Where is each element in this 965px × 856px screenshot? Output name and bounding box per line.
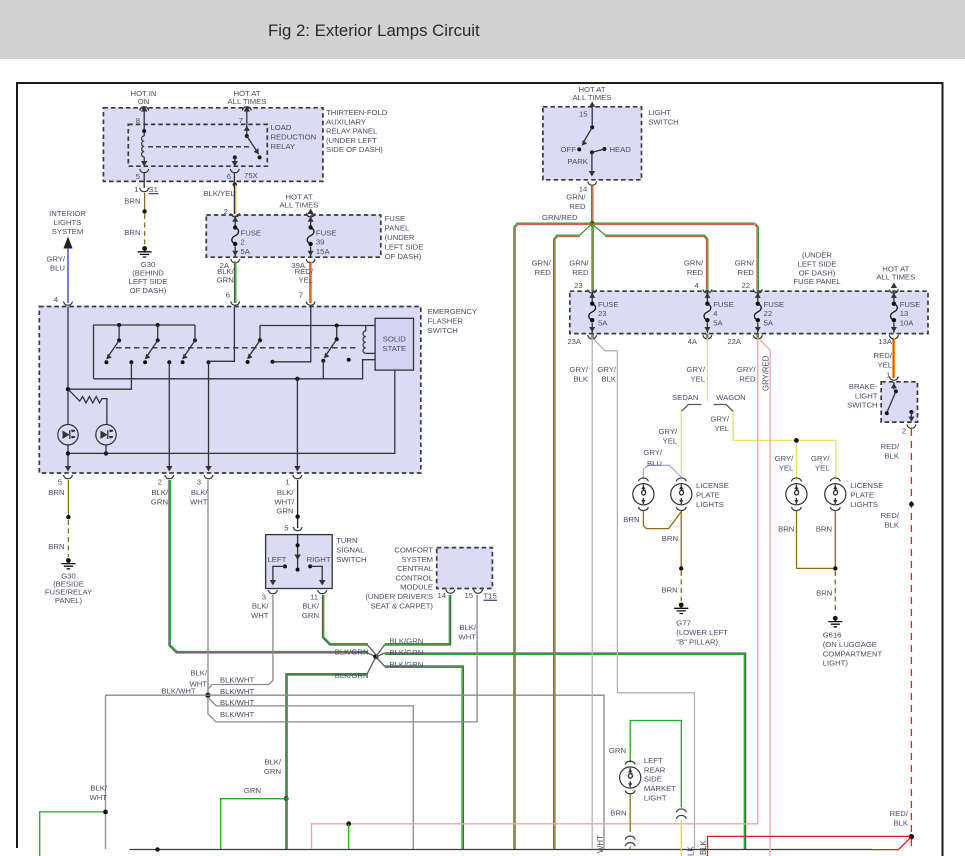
GRY/BLU label [643, 448, 663, 468]
INTERIOR LIGHTS SYSTEM label [49, 209, 86, 236]
turn signal pin 3 cup [268, 590, 277, 594]
svg-text:COMFORT: COMFORT [394, 546, 433, 555]
GRY/YEL label (wagon) [710, 415, 730, 433]
svg-text:RED: RED [687, 268, 704, 277]
svg-text:WHT: WHT [190, 497, 208, 506]
relay panel box (thirteen-fold auxiliary relay panel) [103, 108, 323, 182]
relay panel label [326, 108, 388, 154]
wire BLK/GRN fuse 2A to flasher pin 6 [235, 262, 236, 304]
svg-text:5: 5 [284, 524, 288, 533]
svg-text:RELAY PANEL: RELAY PANEL [326, 127, 378, 136]
solid state label [382, 335, 406, 354]
svg-text:ALL TIMES: ALL TIMES [280, 201, 319, 210]
svg-text:FUSE: FUSE [598, 300, 619, 309]
svg-text:G77: G77 [676, 619, 691, 628]
svg-text:LIGHTS: LIGHTS [696, 500, 724, 509]
svg-text:LIGHTS: LIGHTS [850, 500, 878, 509]
wire BLK/WHT flasher pin3 to junction 2 [207, 480, 209, 693]
svg-text:TURN: TURN [336, 536, 357, 545]
wire GRY/BLK fuse 23A straight down [591, 338, 593, 849]
wire GRY/RED fuse 22A second branch [759, 339, 770, 856]
svg-text:BLK/WHT: BLK/WHT [220, 687, 254, 696]
sedan/wagon split bracket [681, 405, 733, 412]
fuse F22 5A [754, 292, 761, 333]
svg-text:5A: 5A [764, 319, 774, 328]
svg-text:BLK/: BLK/ [217, 267, 235, 276]
ground G77 label [676, 619, 728, 647]
svg-text:BLK/: BLK/ [190, 669, 208, 678]
comfort pin 15 cup [474, 590, 483, 594]
wire GRY/YEL wagon branch [733, 411, 836, 480]
svg-text:RED: RED [738, 268, 755, 277]
svg-text:5A: 5A [713, 319, 723, 328]
svg-text:BRAKE-: BRAKE- [849, 382, 878, 391]
wire BRN S1 to ground G30 [142, 193, 146, 245]
svg-text:BRN: BRN [816, 525, 832, 534]
svg-text:RED/: RED/ [874, 351, 893, 360]
comfort system module box [437, 548, 493, 589]
light switch internals [577, 107, 606, 177]
BLK/WHT label (left vertical) [89, 784, 107, 802]
wire BLK/WHT junction 2 southeast then south at 413 [208, 698, 413, 850]
GRY/RED label [737, 365, 757, 383]
svg-text:LIGHTS: LIGHTS [54, 218, 82, 227]
fuse 2 value label [241, 228, 262, 256]
svg-text:(ON LUGGAGE: (ON LUGGAGE [823, 640, 877, 649]
terminal T15 label [484, 592, 498, 601]
svg-text:RED/: RED/ [881, 442, 900, 451]
svg-text:GRN: GRN [264, 767, 281, 776]
svg-text:BRN: BRN [610, 809, 626, 818]
svg-text:OF DASH): OF DASH) [385, 252, 422, 261]
svg-text:WHT: WHT [189, 680, 207, 689]
svg-text:BLK: BLK [601, 374, 616, 383]
svg-text:5: 5 [136, 172, 140, 181]
wire hot feed light switch [589, 102, 595, 108]
solid state box U1 [375, 318, 413, 370]
svg-text:OF DASH): OF DASH) [130, 286, 167, 295]
svg-text:BLK: BLK [893, 818, 908, 827]
svg-text:4A: 4A [688, 337, 698, 346]
svg-text:GRN/: GRN/ [735, 259, 755, 268]
svg-text:RED: RED [569, 202, 586, 211]
BLK/WHT label (pin 3) [251, 602, 269, 620]
GRY/YEL label [686, 365, 706, 383]
emergency flasher switch box [39, 307, 421, 474]
svg-text:WHT: WHT [596, 835, 605, 853]
svg-text:T15: T15 [484, 592, 497, 601]
wire BLK/GRN junction X to comfort pin 14 [376, 595, 450, 656]
svg-text:BLK/: BLK/ [151, 488, 169, 497]
svg-text:BRN: BRN [124, 228, 140, 237]
svg-text:(UNDER: (UNDER [385, 233, 415, 242]
NC contact lead 3 (to pin 3 and relay pin 6 wire) [205, 307, 234, 472]
svg-text:6: 6 [226, 291, 230, 300]
svg-text:LICENSE: LICENSE [696, 481, 729, 490]
svg-text:LIGHT): LIGHT) [823, 659, 849, 668]
svg-text:3: 3 [262, 593, 266, 602]
svg-text:BRN: BRN [48, 542, 64, 551]
wire BRN flasher pin5 to ground G30 [66, 480, 70, 557]
wire YEL below connector [680, 820, 682, 856]
wire BLK/WHT junction 2 south then east up to comfort pin 15 [208, 595, 477, 722]
turn signal pin 11 cup [318, 590, 327, 594]
svg-text:COMPARTMENT: COMPARTMENT [823, 649, 883, 658]
svg-text:GRN/RED: GRN/RED [542, 213, 578, 222]
fuse F4 5A [704, 292, 711, 333]
svg-text:SYSTEM: SYSTEM [52, 227, 84, 236]
svg-text:THIRTEEN-FOLD: THIRTEEN-FOLD [326, 108, 388, 117]
wire GRY/BLU flasher pin4 up [67, 248, 69, 303]
svg-text:GRY/: GRY/ [597, 365, 617, 374]
ground G616 [828, 616, 842, 627]
wire BRN below marker light [629, 794, 631, 832]
svg-text:LEFT SIDE: LEFT SIDE [798, 259, 837, 268]
svg-text:WHT/: WHT/ [274, 497, 295, 506]
svg-text:5A: 5A [241, 247, 251, 256]
connector on BRN marker wire [625, 836, 635, 846]
svg-text:6: 6 [227, 172, 231, 181]
wire GRN branch from marker feed [221, 796, 289, 849]
svg-text:2: 2 [902, 427, 906, 436]
svg-text:S1: S1 [149, 185, 158, 194]
wire hot feed fuse 13 [891, 283, 897, 289]
svg-text:23: 23 [574, 281, 583, 290]
svg-text:BLK/GRN: BLK/GRN [390, 648, 424, 657]
flasher left bus wire (pin4 down through lamps to pin5) [67, 307, 69, 469]
BLK/GRN label [217, 267, 235, 285]
svg-text:BLK/GRN: BLK/GRN [335, 671, 369, 680]
svg-text:39: 39 [316, 238, 325, 247]
fuse 22 value label [764, 300, 785, 328]
pin 6 cup 75X [230, 169, 239, 173]
svg-text:(UNDER LEFT: (UNDER LEFT [326, 136, 377, 145]
svg-text:ALL TIMES: ALL TIMES [228, 97, 267, 106]
brake light switch internals [885, 382, 915, 422]
flasher top rail wire left section [94, 325, 196, 379]
svg-text:PLATE: PLATE [696, 490, 720, 499]
svg-text:RIGHT: RIGHT [307, 555, 331, 564]
ground G30 label [129, 260, 168, 295]
svg-text:SWITCH: SWITCH [336, 555, 366, 564]
relay coil K1 [141, 129, 147, 167]
brake light switch box [881, 382, 917, 422]
svg-text:BLK/: BLK/ [302, 602, 320, 611]
left rear side marker light bulb [620, 761, 641, 794]
svg-text:FUSE: FUSE [385, 214, 406, 223]
svg-text:BLK/: BLK/ [90, 784, 108, 793]
svg-text:FUSE: FUSE [241, 228, 262, 237]
svg-text:(UNDER: (UNDER [802, 251, 832, 260]
wire relay pin5 to S1 [143, 172, 145, 188]
svg-text:REAR: REAR [644, 765, 666, 774]
right fuse panel box [570, 291, 928, 333]
svg-text:SIDE OF DASH): SIDE OF DASH) [326, 145, 383, 154]
svg-text:BRN: BRN [662, 534, 678, 543]
fuse 23 value label [598, 300, 619, 328]
fuse F13 10A [891, 292, 898, 333]
svg-text:BLK/: BLK/ [252, 602, 270, 611]
flasher pin 1 cup [293, 475, 302, 479]
svg-text:(LOWER LEFT: (LOWER LEFT [676, 628, 728, 637]
interior lights arrow [63, 237, 72, 249]
svg-text:RELAY: RELAY [271, 142, 296, 151]
ground G30 beside label [45, 571, 92, 605]
svg-text:2: 2 [241, 238, 245, 247]
svg-text:BLK/GRN: BLK/GRN [390, 637, 424, 646]
BLK/WHT/GRN label [274, 488, 295, 516]
switch S1a [104, 323, 121, 364]
svg-text:15: 15 [464, 591, 473, 600]
svg-text:RED: RED [572, 268, 589, 277]
svg-text:RED/: RED/ [890, 809, 909, 818]
svg-text:4: 4 [713, 309, 718, 318]
fuse 39 value label [316, 228, 337, 256]
HOT IN ON label [131, 89, 157, 106]
svg-text:RED/: RED/ [881, 511, 900, 520]
license plate light bulb (sedan right) [671, 478, 692, 511]
svg-text:BLK/WHT: BLK/WHT [220, 698, 254, 707]
flasher pin 3 cup [204, 475, 213, 479]
svg-text:BLK: BLK [884, 451, 899, 460]
svg-text:WAGON: WAGON [716, 393, 746, 402]
svg-text:7: 7 [239, 116, 243, 125]
flasher coil to solid state [363, 326, 375, 354]
svg-text:OF DASH): OF DASH) [799, 268, 836, 277]
bottom bus wire [130, 847, 873, 851]
fuse 13 value label [900, 300, 921, 328]
svg-text:4: 4 [54, 295, 59, 304]
svg-text:YEL: YEL [815, 463, 830, 472]
load reduction relay inner box [128, 124, 267, 166]
fuse panel box (fuse 2 / fuse 39) [206, 215, 380, 257]
svg-text:ALL TIMES: ALL TIMES [573, 93, 612, 102]
wire GRN marker light feed [630, 721, 681, 808]
LEFT REAR SIDE MARKET LIGHT label [644, 756, 676, 802]
svg-text:2: 2 [158, 478, 162, 487]
svg-text:PARK: PARK [568, 157, 589, 166]
junction X node (BLK/GRN splice) [373, 654, 378, 659]
svg-text:GRN: GRN [151, 497, 168, 506]
svg-text:5: 5 [58, 478, 62, 487]
svg-text:SEAT & CARPET): SEAT & CARPET) [370, 601, 433, 610]
wire BLK/WHT junction 2 west then south [106, 695, 208, 849]
wire RED/YEL fuse 39A to flasher pin 7 [310, 262, 311, 304]
svg-text:EMERGENCY: EMERGENCY [428, 307, 478, 316]
switch S1b [143, 323, 160, 364]
BLK/GRN label (pin2) [151, 488, 169, 506]
svg-text:13: 13 [900, 309, 909, 318]
wire BLK/GRN turn signal pin11 to junction X [323, 595, 376, 654]
GRN/RED stack labels [532, 259, 552, 277]
GRY/BLU label [46, 255, 66, 273]
wire BLK/GRN flasher pin2 to junction X [169, 480, 376, 657]
fuse F2 5A [232, 216, 239, 257]
svg-text:WHT: WHT [251, 611, 269, 620]
wire BRN sedan license to ground G77 [643, 511, 683, 602]
license plate light bulb (sedan left) [633, 478, 654, 511]
switch S1d [246, 326, 262, 365]
wire BLK/YEL relay pin6 to fuse 2 [233, 173, 237, 215]
lamp bottom rail to solid state [66, 370, 395, 455]
fuse 4 value label [713, 300, 734, 328]
svg-text:LEFT: LEFT [644, 756, 663, 765]
svg-text:ALL TIMES: ALL TIMES [876, 273, 915, 282]
svg-text:GRN: GRN [217, 276, 234, 285]
NC contact lead 2 (to pin 2) [166, 360, 172, 471]
svg-text:23: 23 [598, 309, 607, 318]
svg-text:YEL: YEL [779, 463, 794, 472]
svg-text:MODULE: MODULE [400, 583, 433, 592]
terminal S1 label [149, 185, 159, 194]
pin 7 cup [242, 107, 251, 111]
turn signal internals [270, 535, 326, 586]
svg-text:7: 7 [299, 291, 303, 300]
license plate light bulb (wagon right) [825, 478, 846, 511]
turn signal switch label [336, 536, 366, 564]
brake light switch pin1 cup [889, 377, 898, 381]
fuse F39 15A [307, 216, 314, 257]
turn signal pin 5 cup [293, 527, 302, 531]
svg-text:CONTROL: CONTROL [395, 573, 433, 582]
svg-text:GRY/: GRY/ [710, 415, 730, 424]
resistor R1 [68, 389, 107, 424]
svg-text:BLK/GRN: BLK/GRN [390, 660, 424, 669]
svg-text:CENTRAL: CENTRAL [397, 564, 434, 573]
wire GRY/BLK fuse 23A branch right then down [594, 339, 695, 849]
wire hot feed pin 7 relay [244, 106, 250, 134]
svg-text:GRY/: GRY/ [46, 255, 66, 264]
svg-text:RED/: RED/ [295, 267, 314, 276]
wire GRY/YEL sedan branch [680, 411, 682, 480]
svg-text:BLK/: BLK/ [277, 488, 295, 497]
flasher pin 2 cup [165, 475, 174, 479]
ground G77 [674, 603, 688, 614]
fuse 23 cups [588, 289, 597, 293]
svg-text:FUSE PANEL: FUSE PANEL [793, 277, 841, 286]
svg-text:G616: G616 [823, 631, 842, 640]
svg-text:FUSE: FUSE [713, 300, 734, 309]
svg-text:GRY/: GRY/ [686, 365, 706, 374]
svg-text:GRY/: GRY/ [643, 448, 663, 457]
LICENSE PLATE LIGHTS label (sedan) [696, 481, 729, 509]
svg-text:GRY/: GRY/ [658, 427, 678, 436]
wire BRN stub to bus [629, 847, 631, 850]
svg-text:"B" PILLAR): "B" PILLAR) [676, 637, 718, 646]
svg-text:11: 11 [310, 593, 318, 602]
emergency flasher switch label [428, 307, 478, 335]
wire RED/YEL fuse 13A to brake light switch [893, 338, 894, 378]
ground G616 label [823, 631, 883, 668]
BLK/GRN label (marker feed) [264, 758, 282, 776]
GRY/YEL label (sedan) [658, 427, 678, 445]
svg-text:BLK: BLK [699, 839, 708, 855]
wire GRN joining BLK/WHT at left [40, 810, 108, 856]
svg-text:BLK/GRN: BLK/GRN [335, 648, 369, 657]
S1 terminal cup [140, 188, 149, 192]
svg-text:REDUCTION: REDUCTION [271, 132, 317, 141]
RED/YEL label [295, 267, 314, 285]
svg-text:YEL: YEL [877, 360, 892, 369]
wire RED/BLK brake switch down [909, 429, 914, 850]
svg-text:LEFT SIDE: LEFT SIDE [385, 242, 424, 251]
svg-text:LICENSE: LICENSE [850, 481, 883, 490]
fuse 13 cups [889, 289, 898, 293]
svg-text:BLK/: BLK/ [191, 488, 209, 497]
flasher pin 5 cup [64, 475, 73, 479]
svg-text:BLK: BLK [573, 374, 588, 383]
svg-text:15: 15 [579, 110, 588, 119]
fuse panel label [385, 214, 424, 261]
marker feed continues south [286, 797, 287, 849]
svg-text:5A: 5A [598, 319, 608, 328]
svg-text:BRN: BRN [661, 586, 677, 595]
fuse 22 cups [753, 289, 762, 293]
svg-text:PLATE: PLATE [850, 490, 874, 499]
svg-text:4: 4 [695, 281, 700, 290]
svg-text:GRN: GRN [302, 611, 319, 620]
license plate light bulb (wagon left) [786, 478, 807, 511]
svg-text:8: 8 [136, 116, 140, 125]
comfort pin 14 cup [446, 590, 455, 594]
svg-text:10A: 10A [900, 319, 915, 328]
svg-text:1: 1 [285, 478, 289, 487]
svg-text:YEL: YEL [690, 374, 705, 383]
wire BLK/WHT/GRN flasher pin1 to turn signal pin5 [295, 480, 299, 528]
RED/BLK labels [881, 442, 900, 460]
NC contact lead 4 (to flasher pin 7 wire) [271, 307, 311, 364]
svg-text:FUSE: FUSE [764, 300, 785, 309]
svg-text:YEL: YEL [714, 424, 729, 433]
connector on marker feed [676, 809, 686, 819]
svg-text:YEL: YEL [663, 436, 678, 445]
svg-text:INTERIOR: INTERIOR [49, 209, 86, 218]
wire GRY/RED fuse 22A down west and south [312, 338, 758, 849]
svg-text:BRN: BRN [623, 515, 639, 524]
wire RED diagonal from bus [872, 838, 910, 850]
fuse 39 pin cups [306, 213, 315, 217]
wire hot feed pin 8 [141, 106, 147, 129]
svg-text:SEDAN: SEDAN [672, 393, 699, 402]
BLK/WHT label (comfort pin 15 wire) [458, 623, 476, 641]
svg-text:BRN: BRN [816, 589, 832, 598]
light switch box [543, 107, 642, 180]
wire BLK/WHT junction 2 east then south at 604 [208, 695, 604, 849]
LICENSE PLATE LIGHTS label (wagon) [850, 481, 883, 509]
svg-text:15A: 15A [316, 247, 331, 256]
ground G30 (beside fuse/relay panel) [61, 558, 75, 569]
HOT AT ALL TIMES label (fuse 13) [876, 265, 915, 282]
svg-text:SOLID: SOLID [383, 335, 407, 344]
HOT AT ALL TIMES label (relay) [228, 89, 267, 106]
svg-text:22A: 22A [727, 337, 742, 346]
fuse 2 pin cups [231, 213, 240, 217]
svg-text:PANEL): PANEL) [55, 596, 83, 605]
svg-text:BLK/YEL: BLK/YEL [204, 189, 236, 198]
svg-text:OFF: OFF [561, 145, 577, 154]
wire GRY/YEL fuse 4A down to bracket [706, 338, 708, 401]
wire BRN wagon license to ground G616 [797, 511, 838, 615]
wire BLK/GRN junction X southwest to marker feed [286, 658, 376, 798]
fuse 4 cups [703, 289, 712, 293]
svg-text:AUXILIARY: AUXILIARY [326, 117, 366, 126]
switch S1c [181, 325, 197, 364]
GRN/RED wire labels [566, 193, 586, 211]
light switch pin 14 cup [588, 182, 597, 186]
svg-text:PANEL: PANEL [385, 224, 410, 233]
svg-text:BLK/WHT: BLK/WHT [220, 710, 254, 719]
wire BLK/WHT turn signal pin3 to junction 2 [208, 595, 273, 690]
